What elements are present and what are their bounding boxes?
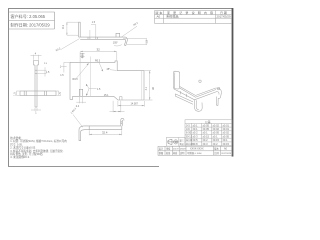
view1 leader R0.2 bottom-left (61, 39, 80, 50)
svg-text:公差: 公差 (205, 120, 211, 124)
view1 horizontal bar (79, 36, 126, 38)
svg-text:8.1: 8.1 (61, 25, 65, 29)
projection symbol cone (168, 139, 172, 144)
view1 bend ticks on bar (87, 37, 89, 39)
svg-text:3-6: 3-6 (186, 127, 190, 131)
view1 hook height dim right (123, 39, 147, 45)
svg-text:36: 36 (151, 86, 155, 90)
bottom view left flange (79, 126, 84, 141)
svg-text:±0.1: ±0.1 (193, 127, 199, 131)
svg-text:±0.1: ±0.1 (213, 134, 219, 138)
svg-text:±0.3: ±0.3 (193, 134, 199, 138)
big view dim 1.5 leader to slot (89, 88, 97, 90)
svg-text:0-3: 0-3 (186, 123, 190, 127)
cross top tab (34, 61, 39, 66)
cross dim 4 above tab (31, 55, 42, 60)
svg-text:客户料号: 2.05.065: 客户料号: 2.05.065 (11, 13, 46, 19)
big view leader 45deg at step (110, 69, 117, 72)
view1 angle 105 deg (114, 45, 122, 46)
svg-text:±0.15: ±0.15 (223, 142, 230, 146)
svg-text:±0.3: ±0.3 (203, 142, 209, 146)
svg-text:XXXX-XXXX: XXXX-XXXX (190, 148, 204, 151)
svg-text:±0.15: ±0.15 (203, 134, 210, 138)
view1 dim 1.5 vertical (90, 25, 96, 37)
svg-text:32.4: 32.4 (102, 131, 108, 135)
bottom view dim 32.4 (89, 130, 122, 135)
svg-text:制作样品: 制作样品 (167, 14, 179, 19)
view1 leader R0.2 top-right (122, 26, 138, 37)
big view dim 14.387 (118, 101, 144, 107)
svg-text:2017/5/29: 2017/5/29 (221, 153, 232, 155)
big view internal bend lines (80, 57, 142, 101)
sheet background (0, 0, 240, 180)
svg-text:±0.02: ±0.02 (213, 123, 220, 127)
iso hole circle 1 (199, 80, 201, 82)
cross horizontal bar (20, 91, 56, 96)
view1 left flange (79, 22, 81, 37)
svg-text:4. 未注圆角R0.3.: 4. 未注圆角R0.3. (10, 155, 30, 159)
svg-text:±0.5: ±0.5 (193, 138, 199, 142)
svg-text:±0.05: ±0.05 (203, 127, 210, 131)
svg-text:14.387: 14.387 (131, 103, 139, 106)
svg-text:±0.2: ±0.2 (193, 131, 199, 135)
svg-text:R0.3: R0.3 (95, 59, 101, 62)
frame left border (8, 8, 10, 167)
big view small tab at chamfer (120, 97, 123, 100)
svg-text:±0.01: ±0.01 (223, 123, 230, 127)
big view small left dims 1 and 1.5 (61, 62, 70, 72)
bottom view lower face (85, 129, 122, 131)
top-right revision table (155, 11, 233, 24)
svg-text:±0.1: ±0.1 (223, 138, 229, 142)
svg-text:2017/05/29: 2017/05/29 (217, 15, 231, 19)
big view outline (70, 61, 144, 100)
svg-text:32: 32 (97, 48, 101, 52)
projection symbol box (166, 138, 185, 147)
svg-text:±0.02: ±0.02 (213, 127, 220, 131)
thickness stack symbol (80, 53, 85, 58)
svg-text:±0.05: ±0.05 (203, 123, 210, 127)
big view leader R0.3 to top notch (99, 63, 103, 72)
svg-text:6-30: 6-30 (186, 131, 192, 135)
cross dim 1.5 right of strip (38, 67, 47, 76)
iso left flange (173, 71, 179, 89)
svg-text:±0.8: ±0.8 (193, 142, 199, 146)
big view slot (79, 89, 82, 96)
svg-text:±0.1: ±0.1 (193, 123, 199, 127)
cross bar bend ticks (23, 91, 25, 96)
cross bottom dim 1 (31, 108, 41, 111)
cross vertical strip (34, 65, 36, 107)
iso main strip upper edge (180, 87, 216, 96)
bottom view top face (84, 125, 121, 127)
svg-text:±0.1: ±0.1 (203, 131, 209, 135)
view1 dim 8.1 left (67, 22, 78, 35)
big view chamfer tab dim (110, 101, 125, 112)
bottom view leader R0.2 (73, 115, 83, 128)
svg-text:±0.01: ±0.01 (223, 127, 230, 131)
svg-text:05/29: 05/29 (180, 148, 186, 150)
big view dim 2.4 at slot (76, 97, 86, 103)
cross strip bend ticks (35, 69, 37, 71)
svg-text:±0.02: ±0.02 (223, 131, 230, 135)
top-left info table (9, 12, 55, 29)
frame bottom border (8, 166, 159, 168)
cross bar right dim 1.5 (57, 91, 59, 96)
svg-text:15.1: 15.1 (104, 94, 109, 97)
iso main strip lower edge (174, 89, 217, 100)
svg-text:±0.05: ±0.05 (223, 134, 230, 138)
iso right hook (216, 88, 222, 98)
svg-text:±0.2: ±0.2 (213, 142, 219, 146)
big view dim 36 right (145, 71, 153, 100)
cross tab shoulders (34, 64, 36, 66)
frame top border (8, 8, 233, 10)
big view leader to top bend corner (76, 64, 89, 79)
view1 small tab (116, 33, 120, 37)
svg-text:2017/: 2017/ (173, 148, 179, 150)
svg-text:R0.3: R0.3 (73, 78, 79, 81)
svg-text:±0.2: ±0.2 (203, 138, 209, 142)
bottom view right flange with hook (120, 120, 122, 126)
svg-text:A0: A0 (157, 15, 161, 19)
svg-text:制作日期: 2017/05/29: 制作日期: 2017/05/29 (11, 22, 51, 28)
iso bottom curl (195, 100, 203, 112)
frame right border (232, 8, 234, 157)
cross bar left dim 1.5 (17, 91, 20, 96)
view1 right bend hook (125, 37, 127, 46)
projection symbol circles (174, 140, 178, 144)
svg-text:±0.15: ±0.15 (213, 138, 220, 142)
iso right pin marks (215, 97, 217, 105)
svg-text:45°: 45° (107, 68, 111, 71)
svg-text:±0.05: ±0.05 (213, 131, 220, 135)
iso hole circle 2 (217, 87, 219, 89)
iso cross bar (175, 94, 193, 102)
svg-text:105°: 105° (113, 41, 118, 44)
